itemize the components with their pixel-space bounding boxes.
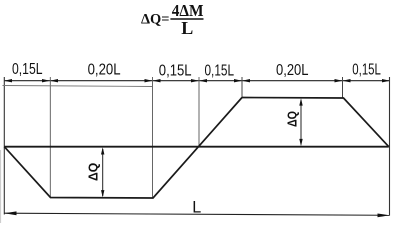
svg-text:L: L — [192, 197, 201, 216]
extension line right edge — [389, 77, 391, 216]
bottom dimension arrows — [4, 211, 389, 217]
dimension arrows span 5 — [242, 79, 343, 82]
label 0,15L span 1 — [12, 61, 43, 78]
svg-text:ΔQ: ΔQ — [286, 111, 300, 127]
extension line x=50 — [49, 77, 51, 198]
scan edge artifact left — [0, 150, 2, 223]
label 0,20L span 5 — [276, 62, 309, 79]
label 0,20L span 2 — [88, 62, 121, 79]
dimension arrows span 3 — [153, 79, 200, 82]
extension line center x=199 — [198, 77, 200, 147]
svg-text:0,15L: 0,15L — [159, 63, 192, 80]
extension line x=342.5 — [342, 77, 344, 98]
extension line x=242 — [241, 77, 243, 98]
label 0,15L span 6 — [352, 62, 381, 79]
svg-text:0,15L: 0,15L — [12, 61, 43, 78]
bottom dimension line L — [4, 213, 389, 215]
extension line x=152.5 — [152, 77, 154, 198]
left trapezoid outline — [4, 98, 242, 199]
thin top reference line left half — [3, 86, 153, 87]
dimension arrows span 6 — [343, 79, 391, 82]
svg-text:ΔQ=: ΔQ= — [141, 11, 170, 27]
label 0,15L span 4 — [205, 63, 235, 80]
svg-text:0,15L: 0,15L — [352, 62, 381, 79]
top dimension line — [4, 80, 390, 82]
formula delta-Q equals — [141, 11, 170, 27]
dimension arrows span 1 — [4, 79, 50, 82]
delta-Q arrow left — [101, 147, 104, 197]
delta-Q arrow right — [299, 98, 302, 146]
svg-text:0,15L: 0,15L — [205, 63, 235, 80]
dimension arrows span 4 — [199, 79, 242, 82]
delta-Q label right (rotated) — [286, 111, 300, 127]
svg-text:L: L — [181, 18, 193, 38]
formula fraction bar — [170, 18, 203, 20]
extension line left edge — [3, 77, 5, 215]
zero axis line — [4, 146, 389, 148]
delta-Q label left (rotated) — [86, 163, 100, 181]
svg-text:ΔQ: ΔQ — [86, 163, 100, 181]
svg-text:0,20L: 0,20L — [276, 62, 309, 79]
formula denominator L — [181, 18, 193, 38]
dimension arrows span 2 — [50, 79, 153, 82]
svg-text:0,20L: 0,20L — [88, 62, 121, 79]
label L bottom — [192, 197, 201, 216]
formula numerator 4 delta-M — [172, 1, 204, 20]
label 0,15L span 3 — [159, 63, 192, 80]
right trapezoid outline — [242, 98, 389, 147]
